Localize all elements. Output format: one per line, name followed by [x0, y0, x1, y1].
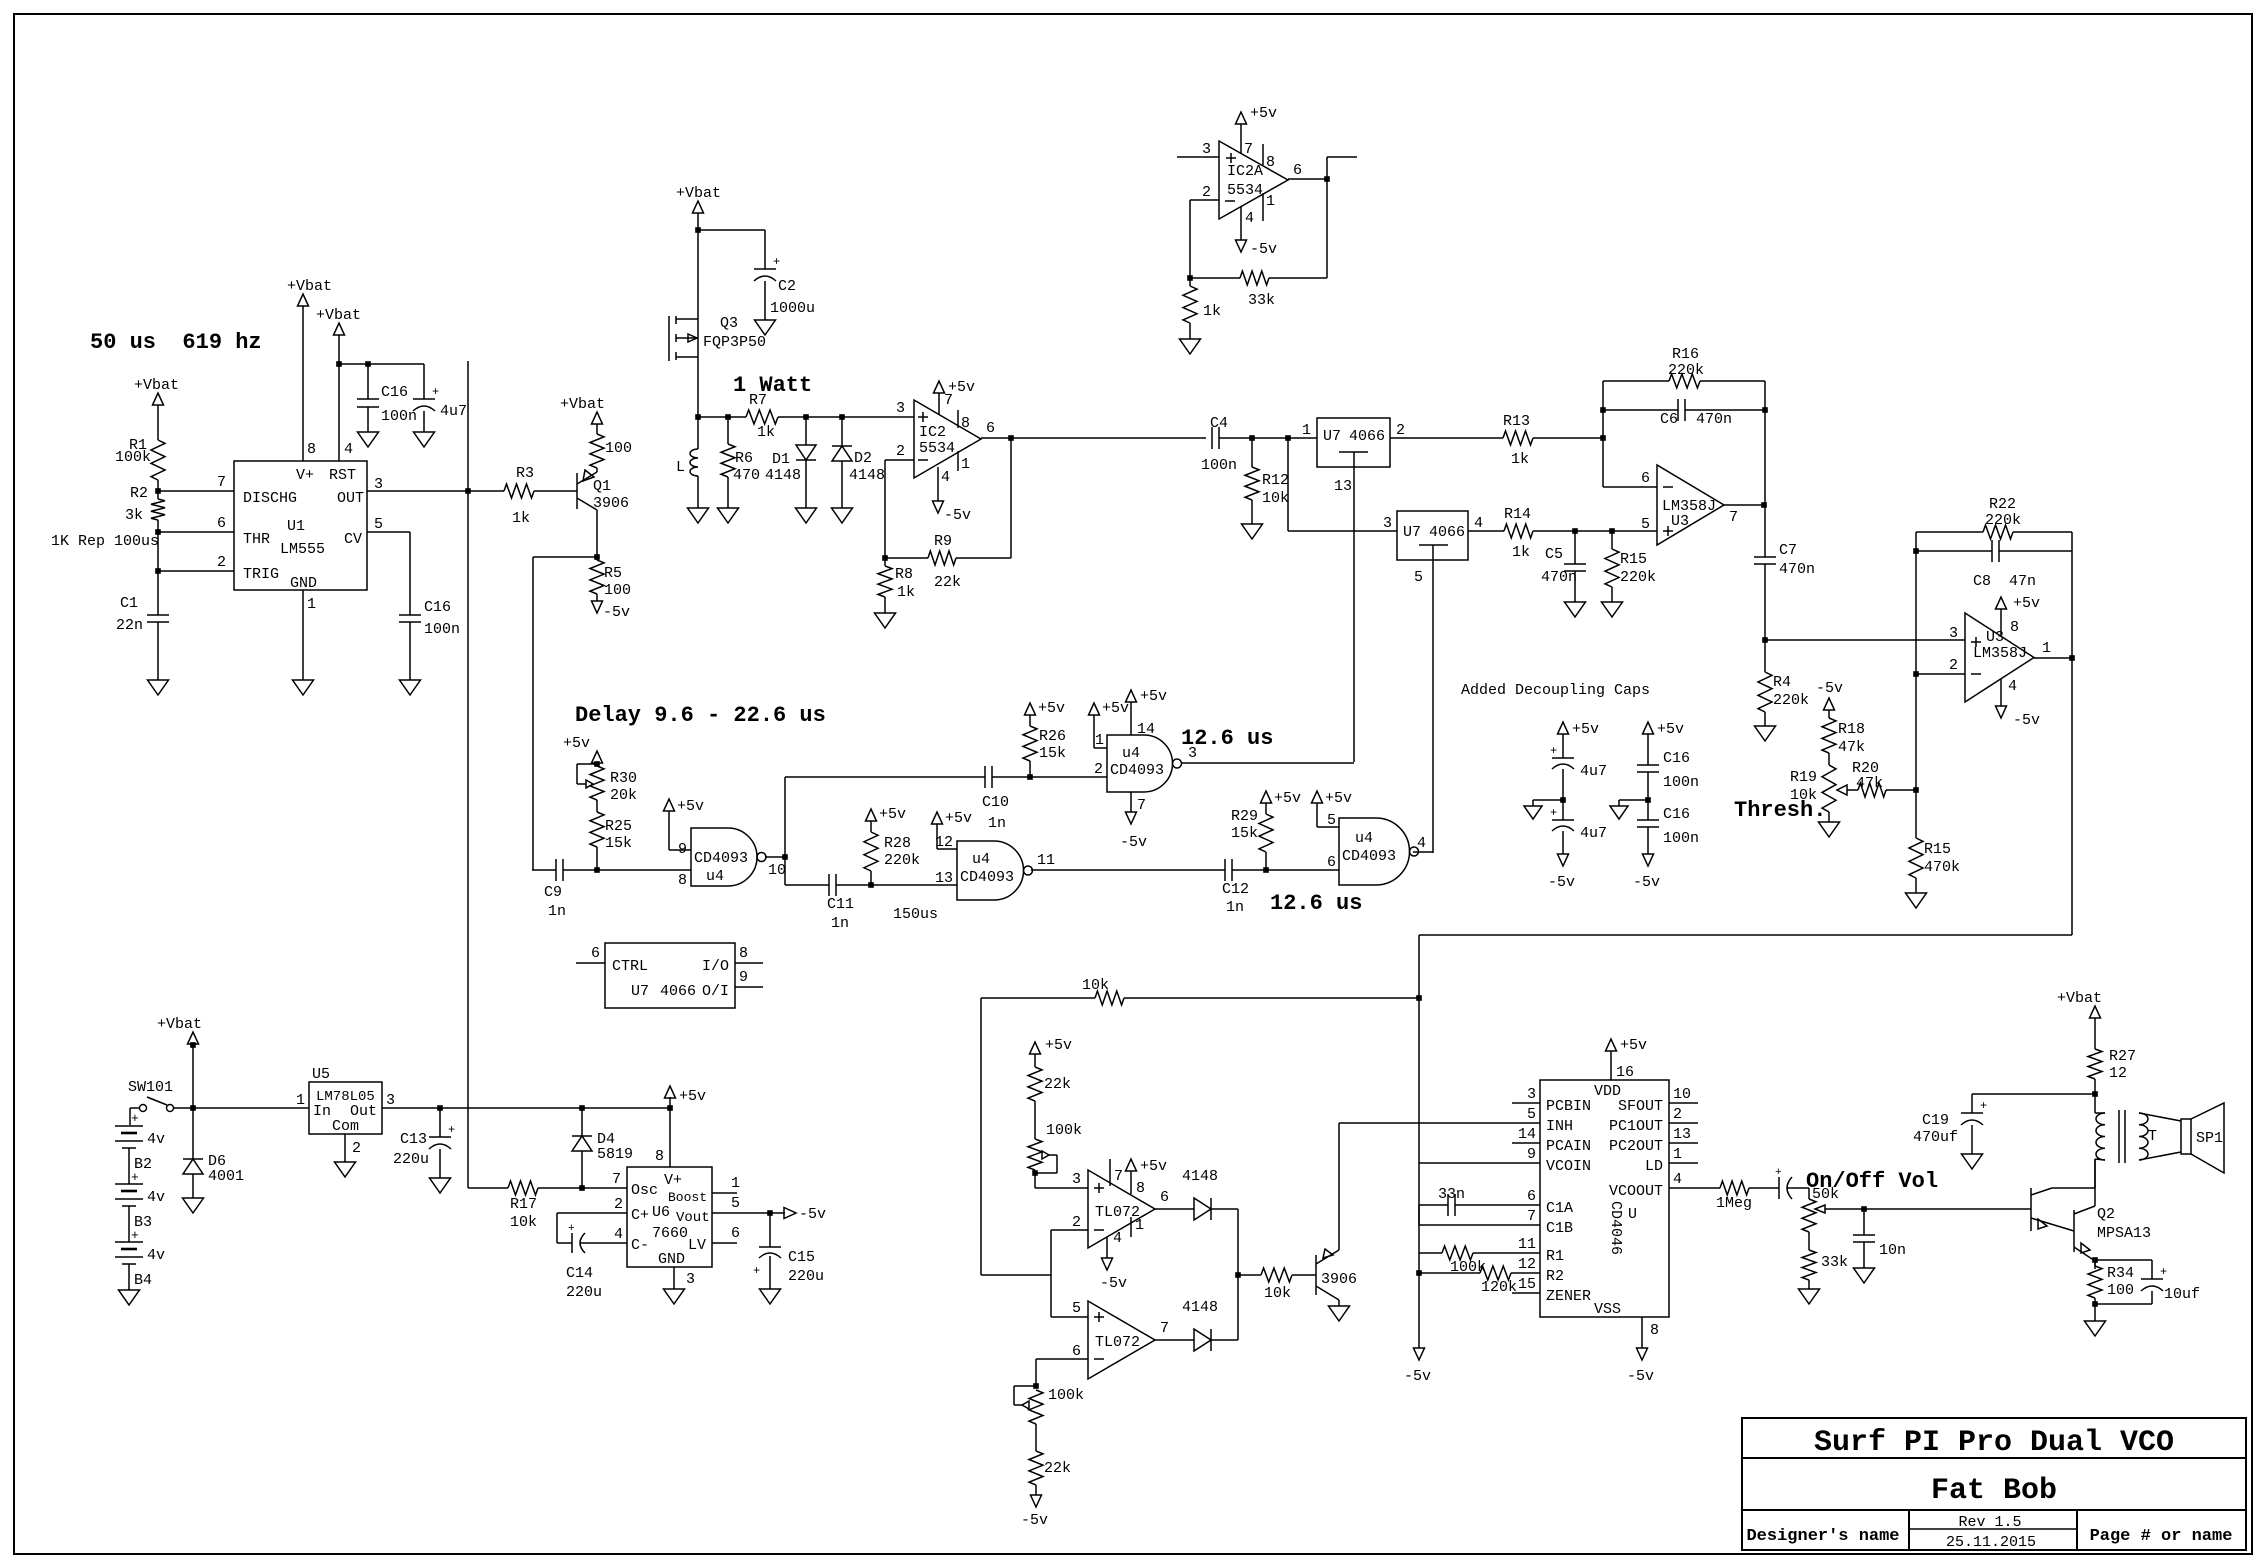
potentiometer 50k volume [1787, 1187, 1809, 1189]
svg-text:1: 1 [2042, 640, 2051, 657]
svg-text:14: 14 [1518, 1126, 1536, 1143]
svg-text:Q3: Q3 [720, 315, 738, 332]
capacitor C1 [157, 571, 159, 615]
svg-text:4148: 4148 [849, 467, 885, 484]
wire C11 to NAND3 pin13 [836, 884, 957, 886]
svg-text:U: U [1628, 1206, 1637, 1223]
svg-text:u4: u4 [1122, 745, 1140, 762]
pin 10 output [765, 856, 785, 858]
capacitor C2 1000u [764, 230, 766, 269]
svg-text:50 us 619 hz: 50 us 619 hz [90, 330, 262, 355]
ground under C2 [764, 281, 766, 320]
svg-text:+Vbat: +Vbat [2057, 990, 2102, 1007]
resistor 22k upper [1028, 1067, 1042, 1101]
svg-text:+5v: +5v [1140, 1158, 1167, 1175]
svg-text:-5v: -5v [1627, 1368, 1654, 1385]
svg-text:R19: R19 [1790, 769, 1817, 786]
svg-text:+5v: +5v [1140, 688, 1167, 705]
svg-text:4066: 4066 [1429, 524, 1465, 541]
wire switch to U5 [173, 1107, 309, 1109]
power +5v to NAND3 pin12 [932, 812, 943, 824]
op-amp U3 LM358J first [1657, 465, 1724, 545]
junction decoupling B [1647, 772, 1649, 820]
svg-text:+: + [1550, 744, 1557, 758]
svg-text:220k: 220k [1620, 569, 1656, 586]
IC U1 LM555 [234, 461, 367, 590]
svg-text:R15: R15 [1924, 841, 1951, 858]
svg-text:7: 7 [1527, 1208, 1536, 1225]
transistor Q2 MPSA13 darlington second [2073, 1210, 2075, 1252]
svg-text:20k: 20k [610, 787, 637, 804]
analog switch U7 4066 first [1317, 418, 1390, 467]
svg-text:470uf: 470uf [1913, 1129, 1958, 1146]
capacitor C16 100n decoupling bottom [1637, 819, 1659, 821]
svg-text:-5v: -5v [1633, 874, 1660, 891]
svg-text:-5v: -5v [1816, 680, 1843, 697]
svg-text:-5v: -5v [2013, 712, 2040, 729]
nand gate u4 CD4093 fourth [1339, 818, 1410, 885]
svg-text:22k: 22k [1044, 1076, 1071, 1093]
svg-text:100k: 100k [1046, 1122, 1082, 1139]
svg-text:+5v: +5v [879, 806, 906, 823]
transformer core [2118, 1110, 2120, 1163]
transistor 3906 VCO [1315, 1255, 1317, 1295]
svg-text:GND: GND [290, 575, 317, 592]
svg-text:4v: 4v [147, 1247, 165, 1264]
svg-text:8: 8 [307, 441, 316, 458]
svg-text:5: 5 [731, 1195, 740, 1212]
svg-text:C8 47n: C8 47n [1973, 573, 2036, 590]
power +5v to NAND4 pin5 [1312, 791, 1323, 803]
svg-text:R2: R2 [1546, 1268, 1564, 1285]
svg-text:U6: U6 [652, 1204, 670, 1221]
diode 4148 lower [1194, 1329, 1211, 1351]
svg-text:u4: u4 [972, 851, 990, 868]
svg-text:+: + [568, 1223, 575, 1235]
svg-text:Osc: Osc [631, 1182, 658, 1199]
svg-text:+: + [2160, 1265, 2167, 1279]
pin 7 output [1724, 504, 1764, 506]
svg-text:6: 6 [986, 420, 995, 437]
resistor R2 120k external [1419, 1272, 1480, 1274]
pin 4 output NAND4 [1413, 851, 1433, 853]
transformer T secondary [2139, 1113, 2148, 1160]
resistor 10k VCO filter [981, 997, 1095, 999]
feedback right vertical U3b [2071, 532, 2073, 658]
IC U CD4046 [1540, 1080, 1669, 1317]
svg-text:100k: 100k [1048, 1387, 1084, 1404]
pin 4 -5v for IC2A [1240, 206, 1242, 240]
svg-text:5: 5 [1414, 569, 1423, 586]
svg-text:+5v: +5v [1250, 105, 1277, 122]
pin 4 -5v TL072a [1106, 1237, 1108, 1258]
svg-text:6: 6 [1293, 162, 1302, 179]
power +5v above R29 [1261, 791, 1272, 803]
svg-text:6: 6 [1072, 1343, 1081, 1360]
svg-text:6: 6 [1160, 1189, 1169, 1206]
svg-text:+5v: +5v [677, 798, 704, 815]
svg-text:+5v: +5v [679, 1088, 706, 1105]
ground under L [697, 476, 699, 508]
svg-text:1: 1 [1135, 1217, 1144, 1234]
pin 3 GND stub [673, 1267, 675, 1289]
svg-text:4: 4 [1673, 1171, 1682, 1188]
svg-text:3: 3 [1949, 625, 1958, 642]
svg-text:47k: 47k [1856, 775, 1883, 792]
svg-text:GND: GND [658, 1251, 685, 1268]
svg-text:1Meg: 1Meg [1716, 1195, 1752, 1212]
svg-text:Com: Com [332, 1118, 359, 1135]
transistor Q3 FQP3P50 p-mosfet [697, 230, 699, 319]
svg-text:1n: 1n [548, 903, 566, 920]
svg-text:C-: C- [631, 1237, 649, 1254]
wire THR to TRIG [157, 532, 159, 571]
potentiometer R19 10k [1822, 765, 1836, 812]
ground under C1 [157, 622, 159, 680]
pin 2 stub [344, 1134, 346, 1162]
svg-text:3906: 3906 [593, 495, 629, 512]
wire node down to R17 [467, 491, 469, 1188]
svg-text:22k: 22k [934, 574, 961, 591]
ground under R12 [1251, 500, 1253, 524]
svg-text:C16: C16 [1663, 750, 1690, 767]
svg-text:1k: 1k [757, 424, 775, 441]
speaker SP1 [2181, 1119, 2191, 1154]
junction Q2 emitter R34 [2092, 1257, 2098, 1263]
svg-text:SP1: SP1 [2196, 1130, 2223, 1147]
svg-text:12: 12 [1518, 1256, 1536, 1273]
diode output rail [1237, 1209, 1239, 1340]
wire 3906 emitter to INH [1338, 1123, 1340, 1244]
wire collector node down to C9 [532, 557, 534, 870]
diode D6 4001 [192, 1108, 194, 1159]
resistor R16 220k [1603, 380, 1669, 382]
svg-text:-5v: -5v [799, 1206, 826, 1223]
svg-text:12: 12 [935, 834, 953, 851]
svg-text:10k: 10k [1082, 977, 1109, 994]
svg-text:Q1: Q1 [593, 478, 611, 495]
svg-text:2: 2 [1673, 1106, 1682, 1123]
resistor R26 15k [1029, 761, 1031, 777]
wire TL072a -input [1051, 1229, 1088, 1231]
pin 3 output NAND2 [1182, 762, 1354, 764]
svg-text:6: 6 [731, 1225, 740, 1242]
wire U5 out to +5v node [382, 1107, 670, 1109]
svg-text:Page # or name: Page # or name [2090, 1527, 2233, 1546]
power -5v decoupling A [1562, 831, 1564, 854]
nand gate u4 CD4093 second top [1107, 735, 1173, 792]
output stub up [1326, 157, 1328, 179]
svg-text:+5v: +5v [945, 810, 972, 827]
ground under U6 [664, 1289, 685, 1304]
svg-text:5: 5 [1527, 1106, 1536, 1123]
ground under R19 [1828, 812, 1830, 822]
svg-text:R28: R28 [884, 835, 911, 852]
pin 8 V+ wire [669, 1108, 671, 1167]
wire R7 to IC2 +input [778, 416, 914, 418]
svg-text:10k: 10k [510, 1214, 537, 1231]
wire node to Q3 gate [467, 361, 469, 491]
svg-text:6: 6 [217, 515, 226, 532]
wire R17 to U6 Osc [538, 1187, 627, 1189]
wire 10k left vertical [980, 998, 982, 1275]
pin 1 Boost stub [712, 1192, 737, 1194]
svg-text:R25: R25 [605, 818, 632, 835]
resistor R22 220k [1916, 531, 1983, 533]
pin 8 +5v TL072a [1130, 1171, 1132, 1194]
svg-text:2: 2 [1094, 761, 1103, 778]
svg-text:+Vbat: +Vbat [316, 307, 361, 324]
inductor L [697, 417, 699, 449]
svg-text:C1B: C1B [1546, 1220, 1573, 1237]
pin 7 +5v for IC2A [1240, 124, 1242, 153]
pin 7 -5v power [1130, 792, 1132, 812]
svg-text:R4: R4 [1773, 674, 1791, 691]
svg-text:VDD: VDD [1594, 1083, 1621, 1100]
resistor R25 15k [596, 800, 598, 812]
resistor 1k to ground [1183, 286, 1197, 323]
wire C1A to C1B [1418, 1205, 1420, 1225]
pin 4 -5v [2000, 679, 2002, 706]
pin 1 stub IC2A [1262, 193, 1264, 221]
svg-text:R26: R26 [1039, 728, 1066, 745]
resistor R15 220k [1611, 531, 1613, 549]
svg-text:10k: 10k [1262, 490, 1289, 507]
svg-text:R14: R14 [1504, 506, 1531, 523]
pin 7 stub TL072a [1109, 1159, 1111, 1186]
svg-text:5: 5 [374, 516, 383, 533]
resistor R3 [504, 484, 534, 498]
svg-text:12: 12 [2109, 1065, 2127, 1082]
svg-text:C2: C2 [778, 278, 796, 295]
power -5v under R5 [596, 594, 598, 601]
capacitor C14 220u [571, 1233, 573, 1253]
svg-text:220u: 220u [566, 1284, 602, 1301]
wire C10 to NAND2 pin2 [992, 776, 1107, 778]
svg-text:100n: 100n [1663, 774, 1699, 791]
svg-text:PCAIN: PCAIN [1546, 1138, 1591, 1155]
svg-text:1: 1 [1095, 732, 1104, 749]
svg-text:-5v: -5v [1404, 1368, 1431, 1385]
svg-text:470k: 470k [1924, 859, 1960, 876]
svg-text:ZENER: ZENER [1546, 1288, 1591, 1305]
svg-text:220u: 220u [788, 1268, 824, 1285]
svg-text:6: 6 [1327, 854, 1336, 871]
svg-text:-5v: -5v [1548, 874, 1575, 891]
pin 13 PC2OUT stub [1669, 1142, 1698, 1144]
svg-text:7: 7 [1114, 1168, 1123, 1185]
capacitor C16 100n at CV [399, 614, 421, 616]
wire pot to TL072 +input [1034, 1170, 1036, 1188]
svg-text:4: 4 [344, 441, 353, 458]
resistor R15 470k [1915, 790, 1917, 838]
pin 1 output [2034, 657, 2072, 659]
resistor R34 100 [2094, 1260, 2096, 1266]
charge-pump U6 7660 [627, 1167, 712, 1267]
svg-text:VCOIN: VCOIN [1546, 1158, 1591, 1175]
svg-text:3: 3 [896, 400, 905, 417]
svg-text:3: 3 [386, 1092, 395, 1109]
pin 8 stub [735, 962, 763, 964]
svg-text:7: 7 [1137, 797, 1146, 814]
ground under C16b [409, 622, 411, 680]
svg-text:+5v: +5v [2013, 595, 2040, 612]
svg-text:6: 6 [1641, 470, 1650, 487]
ground tap decoupling B [1619, 799, 1648, 801]
diode D4 5819 [581, 1108, 583, 1136]
svg-text:LM555: LM555 [280, 541, 325, 558]
svg-text:11: 11 [1518, 1236, 1536, 1253]
svg-text:470n: 470n [1541, 569, 1577, 586]
svg-text:C11: C11 [827, 896, 854, 913]
svg-text:1k: 1k [512, 510, 530, 527]
capacitor coupling at 50k [1749, 1187, 1779, 1189]
resistor 100 at Q1 emitter [590, 434, 604, 468]
svg-text:+: + [432, 385, 439, 399]
svg-text:CTRL: CTRL [612, 958, 648, 975]
nand gate u4 CD4093 first [691, 828, 757, 886]
svg-text:2: 2 [614, 1196, 623, 1213]
svg-text:100n: 100n [1201, 457, 1237, 474]
svg-text:On/Off Vol: On/Off Vol [1806, 1169, 1938, 1194]
svg-text:R13: R13 [1503, 413, 1530, 430]
pin 14 PCAIN stub [1512, 1142, 1540, 1144]
svg-text:8: 8 [655, 1148, 664, 1165]
feedback wire IC2 out to R9 [1010, 438, 1012, 558]
op-amp IC2 5534 [914, 400, 981, 478]
wire diode rail to 10k [1235, 1272, 1241, 1278]
svg-text:33k: 33k [1821, 1254, 1848, 1271]
pin 6 output IC2A [1288, 178, 1327, 180]
svg-text:22n: 22n [116, 617, 143, 634]
svg-text:CV: CV [344, 531, 362, 548]
power -5v arrow right [784, 1208, 796, 1219]
capacitor C4 100n [1211, 427, 1213, 449]
svg-text:+: + [1775, 1167, 1782, 1179]
svg-text:10uf: 10uf [2164, 1286, 2200, 1303]
svg-text:OUT: OUT [337, 490, 364, 507]
svg-text:+5v: +5v [1038, 700, 1065, 717]
svg-text:-5v: -5v [1120, 834, 1147, 851]
pin 11 output NAND3 [1031, 869, 1225, 871]
pin 8 VSS -5v [1641, 1317, 1643, 1348]
svg-text:R29: R29 [1231, 808, 1258, 825]
pin 6 output wire [981, 437, 1206, 439]
svg-text:C4: C4 [1210, 415, 1228, 432]
resistor R9 22k [956, 557, 1011, 559]
svg-text:9: 9 [1527, 1146, 1536, 1163]
svg-text:FQP3P50: FQP3P50 [703, 334, 766, 351]
pin 14 +5v power [1130, 721, 1132, 735]
svg-text:U3: U3 [1671, 513, 1689, 530]
feedback wire IC2A [1326, 179, 1328, 278]
svg-text:10k: 10k [1264, 1285, 1291, 1302]
svg-text:+Vbat: +Vbat [134, 377, 179, 394]
svg-text:+5v: +5v [563, 735, 590, 752]
svg-text:Delay 9.6 - 22.6 us: Delay 9.6 - 22.6 us [575, 703, 826, 728]
svg-text:8: 8 [1136, 1180, 1145, 1197]
wire TL072b -input to pot [1036, 1358, 1088, 1360]
svg-text:220k: 220k [1985, 512, 2021, 529]
svg-text:7: 7 [1160, 1320, 1169, 1337]
wire Q3 source down to L node [697, 357, 699, 417]
svg-text:CD4093: CD4093 [694, 850, 748, 867]
svg-text:+: + [753, 1264, 760, 1278]
svg-text:C12: C12 [1222, 881, 1249, 898]
svg-text:Thresh.: Thresh. [1734, 798, 1826, 823]
svg-text:D2: D2 [854, 450, 872, 467]
svg-text:+Vbat: +Vbat [157, 1016, 202, 1033]
resistor R14 1k [1504, 524, 1533, 538]
control wire 4066 pin13 [1353, 467, 1355, 762]
wire -input vertical [1915, 532, 1917, 674]
svg-text:220u: 220u [393, 1151, 429, 1168]
svg-text:1: 1 [1673, 1146, 1682, 1163]
ground under D6 [192, 1174, 194, 1198]
svg-text:4: 4 [1417, 835, 1426, 852]
wire junction to -input [1603, 486, 1657, 488]
svg-text:1k: 1k [1512, 544, 1530, 561]
svg-text:SFOUT: SFOUT [1618, 1098, 1663, 1115]
svg-text:4: 4 [2008, 678, 2017, 695]
svg-text:-5v: -5v [944, 507, 971, 524]
svg-text:7: 7 [1729, 509, 1738, 526]
svg-text:V+: V+ [664, 1172, 682, 1189]
svg-text:10: 10 [768, 862, 786, 879]
pin 3 PCBIN stub [1512, 1102, 1540, 1104]
nand gate u4 CD4093 third [957, 841, 1024, 900]
wire C9 to NAND pin 8 [563, 869, 691, 871]
svg-text:C1: C1 [120, 595, 138, 612]
ground under D2 [841, 461, 843, 508]
capacitor 4u7 decoupling top [1552, 757, 1574, 759]
svg-text:C1A: C1A [1546, 1200, 1573, 1217]
pin 9 stub [735, 986, 763, 988]
svg-text:C9: C9 [544, 884, 562, 901]
svg-text:LD: LD [1645, 1158, 1663, 1175]
ground under R8 [884, 597, 886, 613]
pin 1 LD stub [1669, 1162, 1698, 1164]
svg-text:VSS: VSS [1594, 1301, 1621, 1318]
resistor R6 470 [727, 417, 729, 444]
wire TL072b +input [1051, 1316, 1088, 1318]
svg-text:R9: R9 [934, 533, 952, 550]
svg-text:+: + [1980, 1099, 1987, 1113]
svg-text:3: 3 [1072, 1171, 1081, 1188]
svg-text:INH: INH [1546, 1118, 1573, 1135]
svg-text:1: 1 [1266, 193, 1275, 210]
svg-text:4: 4 [1113, 1230, 1122, 1247]
svg-text:V+: V+ [296, 467, 314, 484]
resistor 33k feedback [1269, 277, 1327, 279]
svg-text:PCBIN: PCBIN [1546, 1098, 1591, 1115]
svg-text:IC2: IC2 [919, 424, 946, 441]
ground under R6 [727, 477, 729, 508]
svg-text:R16: R16 [1672, 346, 1699, 363]
svg-text:u4: u4 [706, 868, 724, 885]
resistor R13 1k [1503, 431, 1533, 445]
power +5v above R26 [1025, 703, 1036, 715]
wire R14 to +input [1468, 530, 1504, 532]
svg-text:CD4093: CD4093 [1110, 762, 1164, 779]
svg-text:+: + [131, 1170, 139, 1185]
resistor R27 12 [2088, 1049, 2102, 1079]
ground under U5 [335, 1162, 356, 1177]
svg-text:TRIG: TRIG [243, 566, 279, 583]
resistor 33k volume [1808, 1232, 1810, 1250]
svg-text:-5v: -5v [1021, 1512, 1048, 1529]
resistor 10k to 3906 [1261, 1268, 1292, 1282]
